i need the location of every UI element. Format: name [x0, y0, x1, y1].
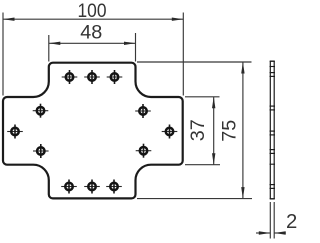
svg-text:37: 37	[187, 119, 209, 141]
dimension 100: right arrowhead	[172, 18, 184, 21]
hole top-left	[62, 70, 78, 84]
hole bot-right	[106, 180, 122, 194]
svg-text:100: 100	[78, 0, 107, 22]
hole right-upper	[135, 104, 151, 118]
dimension 37: bottom arrowhead	[212, 153, 215, 165]
hole top-mid	[84, 70, 100, 84]
dimension 48: extension line left	[48, 35, 50, 62]
dimension 100: left arrowhead	[3, 18, 15, 21]
dimension 75: extension line top	[137, 61, 252, 63]
dimension 2: extension line left	[269, 202, 271, 239]
svg-text:75: 75	[219, 120, 241, 142]
dimension 48: extension line right	[135, 33, 137, 62]
hole left-lower	[33, 144, 49, 158]
hole left-end	[7, 125, 23, 139]
hole bot-mid	[84, 180, 100, 194]
side view: plate edge profile	[270, 61, 275, 199]
dimension 48: right arrowhead	[124, 42, 136, 45]
dimension 37: dimension line	[213, 97, 215, 165]
dimension 75: top arrowhead	[241, 62, 244, 74]
dimension 37: extension line bottom	[185, 164, 220, 166]
hole top-right	[107, 70, 123, 84]
dimension 75: bottom arrowhead	[241, 187, 244, 199]
dimension 75: dimension line	[242, 62, 244, 199]
hole left-upper	[33, 104, 49, 118]
hole right-end	[162, 125, 178, 139]
dimension 100: dimension line	[3, 18, 183, 20]
dimension 2: dimension line left part	[256, 232, 270, 234]
svg-text:2: 2	[286, 211, 297, 233]
dimension 2: extension line right	[273, 202, 275, 239]
dimension 2: right arrowhead (points left)	[274, 231, 286, 234]
dimension 100: extension line right	[182, 13, 184, 96]
dimension 2: dimension line right part	[274, 232, 286, 234]
dimension 37: top arrowhead	[212, 97, 215, 109]
svg-text:48: 48	[80, 21, 102, 43]
dimension 48: left arrowhead	[49, 42, 61, 45]
dimension 100: extension line left	[2, 13, 4, 96]
side view: hole tick marks	[270, 67, 276, 189]
plate outline: cross-shaped cover plate, front view	[3, 63, 183, 199]
dimension 48: dimension line	[49, 42, 136, 44]
dimension 75: extension line bottom	[137, 198, 252, 200]
dimension 37: extension line top	[185, 96, 220, 98]
hole right-lower	[136, 144, 152, 158]
dimension 2: left arrowhead (points right)	[259, 231, 271, 234]
hole bot-left	[61, 180, 77, 194]
